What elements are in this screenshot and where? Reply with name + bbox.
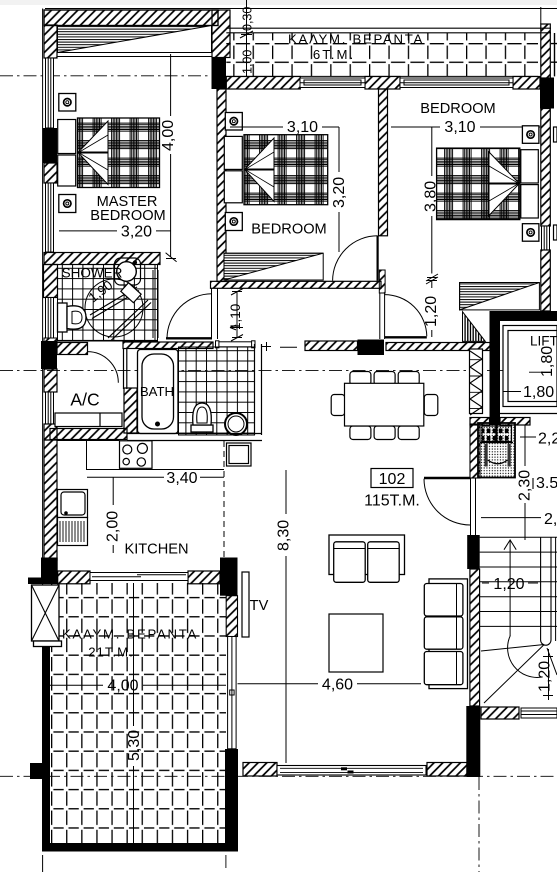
dim 1,20 (hall door) — [426, 277, 438, 337]
svg-text:2,2: 2,2 — [538, 431, 557, 448]
column black living bottom right — [466, 706, 480, 777]
dim 1,20 rotated (stairs bottom) — [543, 649, 553, 700]
wall: right exterior — [541, 7, 551, 311]
wall: master top exterior — [44, 10, 230, 58]
wall left (A/C) — [44, 369, 57, 392]
wall: stairs left hatched — [470, 569, 480, 706]
entry shade triangle (vertical stripes) — [463, 312, 486, 342]
node: reference cross — [262, 342, 297, 351]
svg-text:3,20: 3,20 — [121, 224, 152, 241]
black square on left veranda wall — [30, 763, 42, 779]
dim 0,30 / -1,00 vertical at x=246 — [240, 0, 253, 76]
bed (bedroom2) — [224, 135, 327, 205]
svg-text:BEDROOM: BEDROOM — [90, 208, 165, 224]
svg-text:BEDROOM: BEDROOM — [251, 222, 326, 238]
wall: shower/nook divider — [153, 270, 158, 338]
shower circle — [85, 279, 143, 337]
awning shade bedroom3 — [460, 283, 540, 310]
dim 3,20 (bedroom2 vertical) — [338, 127, 340, 252]
wall light (bedroom3 upper) — [522, 126, 539, 144]
wall: shower top — [44, 253, 160, 265]
dim 2,1 — [481, 517, 541, 519]
bed (master) — [58, 118, 160, 188]
svg-text:102: 102 — [379, 471, 406, 488]
wall light (bedroom3 lower) — [522, 224, 539, 242]
dim 2,00 — [112, 477, 114, 553]
washbasin (shower) — [115, 258, 141, 285]
wall: left exterior (shower) — [44, 265, 58, 298]
door hallway->living — [384, 295, 426, 338]
wall: kitchen bottom / veranda top — [58, 571, 220, 584]
door bath (nook) — [166, 294, 212, 339]
column black left — [41, 341, 57, 369]
svg-text:8,30: 8,30 — [276, 520, 293, 551]
window strip hallway/bath — [216, 341, 256, 348]
wall: nook/hall left jamb — [212, 288, 218, 339]
wall light (bedroom2 lower) — [225, 213, 242, 231]
dim 1,80 horizontal (lift) — [503, 391, 521, 393]
kitchen sink unit — [58, 490, 88, 546]
A/C shelf — [55, 413, 122, 427]
dim 1,10 (hallway) — [231, 289, 243, 342]
kitchen open boundary (dashed) — [223, 441, 225, 560]
stove — [120, 441, 153, 469]
veranda-living boundary: column + glass door — [220, 558, 238, 749]
dim 4,00 (master vertical) — [166, 54, 177, 262]
dim 4,00 (veranda) — [50, 684, 226, 686]
svg-text:3,10: 3,10 — [287, 119, 318, 136]
svg-text:0,30: 0,30 — [241, 7, 255, 31]
wall: between bedroom2 and bedroom3 — [379, 89, 388, 236]
lift shaft black walls — [490, 311, 501, 425]
node: entry arrow — [230, 325, 243, 330]
dim 3,40 — [87, 476, 224, 478]
bed (bedroom3, mirrored) — [437, 148, 539, 220]
column black stairs left — [467, 535, 480, 569]
svg-text:KITCHEN: KITCHEN — [124, 542, 188, 558]
svg-text:21Τ.Μ.: 21Τ.Μ. — [88, 645, 134, 660]
wall: band below top veranda (bedroom north wall) — [226, 77, 540, 90]
wall light (bedroom2 upper) — [225, 113, 242, 131]
svg-text:1,20: 1,20 — [537, 661, 554, 692]
svg-text:BATH: BATH — [140, 384, 174, 399]
lift cab — [503, 326, 557, 407]
TV unit — [242, 572, 249, 637]
veranda walls thick black — [42, 586, 238, 852]
svg-text:115Τ.Μ.: 115Τ.Μ. — [364, 493, 420, 510]
dim 3,20 (master horizontal) — [59, 230, 171, 232]
wall: stairs bottom — [481, 707, 519, 719]
column black hallway bottom — [358, 340, 385, 356]
X column box — [32, 585, 62, 647]
svg-text:A/C: A/C — [70, 390, 99, 410]
pantry stippled (laundry niche) — [470, 423, 515, 478]
wall: insulated strip left of lift — [470, 349, 483, 415]
wall: living top right — [386, 343, 490, 351]
toilet (bath) — [191, 403, 213, 432]
kitchen counter lines — [86, 441, 224, 470]
dim 3,80 (bedroom3 vertical) — [426, 127, 438, 281]
svg-text:4,60: 4,60 — [322, 677, 353, 694]
veranda floor tiles (top) — [226, 28, 551, 76]
window bedroom2 north — [300, 78, 365, 88]
coffee table — [329, 614, 383, 672]
wall: left exterior kitchen — [44, 440, 57, 560]
dim 3,10 (bedroom3) — [391, 126, 540, 128]
dim extension ticks below veranda — [42, 855, 44, 872]
STAIRS — [480, 537, 557, 703]
wall: hallway bottom (living side) — [305, 341, 358, 351]
svg-text:3,40: 3,40 — [166, 470, 197, 487]
svg-text:ΚΑΛΥΜ. ΒΕΡΑΝΤΑ: ΚΑΛΥΜ. ΒΕΡΑΝΤΑ — [62, 627, 198, 642]
svg-text:1,20: 1,20 — [423, 296, 440, 327]
toilet (shower) — [58, 303, 87, 332]
handrail — [541, 537, 551, 645]
svg-text:3.5: 3.5 — [536, 475, 557, 492]
svg-text:ΚΑΛΥΜ. ΒΕΡΑΝΤΑ: ΚΑΛΥΜ. ΒΕΡΑΝΤΑ — [288, 32, 424, 47]
svg-text:2,00: 2,00 — [105, 511, 122, 542]
tiles of neighbour veranda (top-right corner) — [551, 33, 557, 76]
wall: bath bottom — [127, 434, 262, 441]
column black kitchen bottom-left — [41, 558, 58, 585]
sink (bath) — [225, 413, 247, 435]
wall: hallway top — [211, 281, 382, 288]
wall: between master and bedroom2 — [217, 89, 226, 282]
sofa (2-seat) — [329, 535, 405, 582]
wall light (master, upper) — [59, 94, 76, 112]
wall light (master, lower) — [59, 195, 76, 213]
svg-text:BEDROOM: BEDROOM — [420, 101, 495, 117]
wall: bath right — [255, 344, 262, 435]
veranda floor tiles (bottom) — [50, 583, 226, 844]
svg-text:4,00: 4,00 — [160, 120, 177, 151]
wall: A/C bottom — [50, 429, 127, 440]
wall: living bottom + sliding door — [243, 763, 467, 777]
shower diagonal screen — [90, 283, 151, 341]
door A/C — [87, 352, 118, 383]
svg-text:SHOWER: SHOWER — [62, 266, 123, 281]
dining table — [331, 372, 438, 440]
partial neighbour wall lights at right edge — [554, 127, 557, 142]
dim 2,20 — [520, 425, 536, 540]
svg-text:1,00: 1,00 — [241, 50, 255, 74]
svg-text:1,20: 1,20 — [493, 576, 524, 593]
svg-text:6Τ.Μ.: 6Τ.Μ. — [313, 47, 355, 62]
svg-text:1,80: 1,80 — [523, 384, 554, 401]
awning shade bedroom2 — [224, 253, 323, 280]
fridge — [227, 443, 252, 466]
door bedroom2 — [333, 236, 378, 281]
label 102 — [371, 469, 413, 488]
svg-text:2,: 2, — [544, 511, 557, 528]
entrance door — [424, 478, 476, 535]
bath floor tiles — [179, 347, 255, 435]
column black at right end of north wall — [540, 78, 554, 109]
dim 3,5 — [532, 478, 534, 489]
svg-text:2,30: 2,30 — [517, 470, 534, 501]
window bedroom3 north — [400, 78, 513, 88]
shower floor tiles — [58, 265, 158, 342]
wall: left exterior of master — [43, 25, 57, 252]
svg-text:5,30: 5,30 — [126, 730, 143, 761]
wall: hall/living divider with door — [379, 270, 385, 339]
dim 3,10 (bedroom2) — [230, 126, 339, 128]
dim 1,20 (stairs) — [482, 582, 538, 584]
svg-text:3,10: 3,10 — [444, 119, 475, 136]
svg-text:TV: TV — [250, 598, 269, 614]
svg-text:1,10: 1,10 — [228, 304, 243, 330]
column (black) top of bedroom2 wall — [212, 58, 227, 90]
wall: below lift — [470, 418, 490, 426]
bathtub — [138, 350, 179, 434]
awning shade master — [58, 26, 212, 57]
svg-text:3,20: 3,20 — [331, 177, 348, 208]
wall: A/C-bath divider — [124, 349, 127, 390]
dim 8,30 — [285, 470, 287, 763]
sofa (3-seat right) — [424, 579, 467, 689]
dim 5,30 rotated — [133, 583, 135, 843]
dim 4,60 — [238, 683, 422, 685]
wall: shower bottom — [57, 343, 88, 355]
